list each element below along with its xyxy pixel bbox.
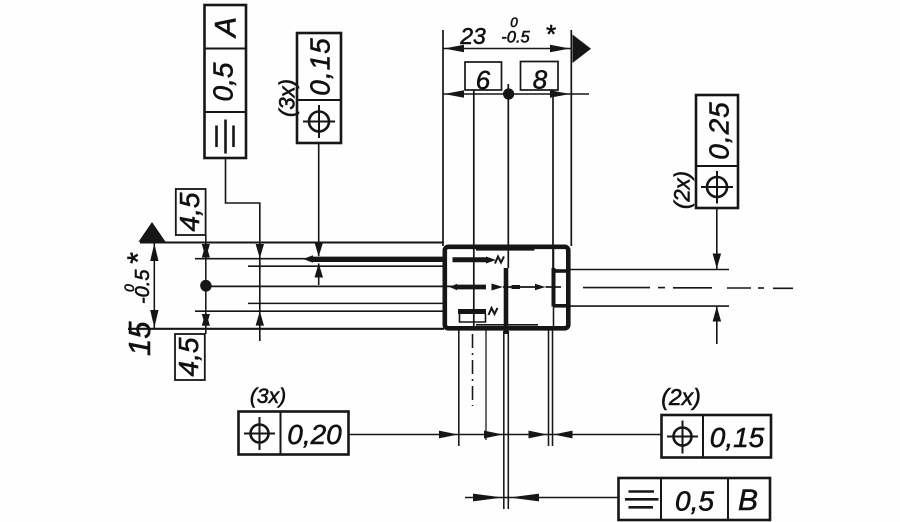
thick jog at right top — [554, 269, 568, 273]
thick middle vertical (slot edge) — [504, 268, 509, 334]
basic dim box 4,5 top — [176, 189, 206, 235]
double arrow bottom (4,5) — [202, 312, 210, 326]
arrow right tip at 547.5 — [529, 431, 548, 439]
label (3x) rotated — [275, 79, 300, 117]
svg-text:(2x): (2x) — [661, 384, 701, 410]
arrow down on A leader — [256, 244, 264, 258]
feature control frame position 0,15 (vertical) — [297, 33, 341, 143]
dimension 23 0/-0.5 * text — [459, 15, 556, 49]
center line thick dash in section — [455, 285, 486, 290]
dimension line 15 (vertical) — [153, 243, 155, 329]
arrow up on A leader — [256, 311, 264, 325]
part bottom line — [128, 328, 444, 330]
leader line to 0,5 B frame — [465, 497, 619, 499]
part line 5 — [195, 310, 444, 312]
thin inner right edge above/below notch — [553, 248, 555, 268]
arrow down to slot bar — [315, 243, 324, 257]
position symbol 0,25 — [701, 171, 733, 204]
arrow left (23) — [444, 45, 464, 53]
part line 4 — [248, 302, 444, 304]
big direction triangle — [573, 35, 592, 64]
feature control frame A (symmetry 0,5 A, vertical) — [205, 5, 247, 158]
symmetry symbol bottom — [625, 492, 659, 508]
svg-text:0,15: 0,15 — [710, 422, 765, 453]
shaft bottom line right — [568, 305, 729, 307]
arrow right tip at 502.8 — [473, 494, 503, 502]
arrow up to shaft bottom — [713, 306, 722, 321]
svg-text:(2x): (2x) — [670, 171, 695, 209]
arrow right (6/8) — [550, 90, 570, 98]
svg-text:-0.5: -0.5 — [132, 269, 154, 304]
svg-text:0,15: 0,15 — [305, 37, 336, 96]
thick jog at right bottom — [554, 304, 568, 308]
inner step line bottom — [476, 324, 538, 326]
feature control frame symmetry 0,5 B — [619, 478, 771, 520]
extension line from dot — [507, 84, 509, 268]
feature control frame position 0,15 bottom — [662, 415, 772, 458]
squiggle break mark lower — [489, 308, 498, 315]
text 4,5 bottom (rotated) — [173, 337, 204, 376]
inner slot bar with arrow — [453, 257, 489, 262]
value 0,5 (rotated) — [208, 62, 239, 101]
inner step line top — [476, 249, 535, 251]
text 4,5 top (rotated) — [174, 192, 205, 231]
extension line for 4,5 dims — [205, 235, 207, 334]
small arrow right on center line — [492, 284, 504, 291]
svg-text:4,5: 4,5 — [173, 337, 204, 376]
basic dim box 8 — [521, 62, 559, 91]
svg-text:0,5: 0,5 — [675, 486, 714, 517]
arrow right (23) — [550, 45, 570, 53]
label (2x) rotated — [670, 171, 695, 209]
arrow right tip at 458 — [439, 431, 458, 439]
svg-text:(3x): (3x) — [250, 385, 286, 408]
basic dim box 4,5 bottom — [175, 334, 205, 380]
svg-text:8: 8 — [533, 65, 548, 95]
slot center dash-dot below part — [472, 334, 474, 406]
svg-text:-0.5: -0.5 — [501, 29, 530, 47]
center line thin in section — [503, 286, 536, 288]
arrow right tip at 503 — [484, 431, 503, 439]
leader from 0,15 frame — [318, 143, 320, 256]
svg-text:0,25: 0,25 — [704, 101, 735, 160]
svg-text:0,5: 0,5 — [208, 62, 239, 101]
svg-text:*: * — [545, 19, 556, 49]
small tab below lower bar — [460, 314, 486, 322]
svg-text:A: A — [210, 17, 243, 39]
center line dashes right — [583, 287, 793, 290]
arrow left tip at 509.3 — [509, 494, 539, 502]
dimension/leader line mid bottom — [349, 434, 662, 436]
arrow left (6/8) — [444, 90, 464, 98]
leader stub below bar — [318, 264, 320, 286]
thick section outline — [445, 247, 569, 328]
dimension line 6/8 — [443, 93, 589, 95]
center line with dot — [200, 280, 211, 291]
extension line left x=443 — [442, 30, 444, 246]
feature control frame position 0,20 — [239, 412, 349, 455]
part line 2 — [195, 258, 444, 260]
leader from frame A — [226, 158, 260, 341]
heavy slot bar — [311, 257, 446, 262]
svg-text:*: * — [122, 252, 155, 265]
center line short thick dash — [512, 285, 521, 289]
double arrow top (4,5) — [202, 243, 210, 257]
dot on center line — [200, 280, 211, 291]
part top line — [140, 242, 444, 244]
junction dot on dim line — [503, 88, 514, 99]
position symbol — [303, 105, 335, 138]
leader from 0,25 frame lower — [716, 306, 718, 344]
datum letter A — [210, 17, 243, 39]
position symbol 0,20 — [244, 417, 275, 450]
part line 3 — [248, 265, 444, 267]
feature control frame position 0,25 (vertical) — [696, 95, 738, 208]
shaft top line right — [568, 269, 729, 271]
svg-text:6: 6 — [476, 65, 491, 95]
arrow left tip at 553.5 — [554, 431, 573, 439]
value 0,15 (rotated) — [305, 37, 336, 96]
symmetry symbol (rotated) — [217, 120, 234, 154]
thick inner right edge — [552, 268, 556, 307]
svg-text:B: B — [738, 484, 758, 517]
arrow down to shaft top — [713, 254, 722, 269]
leader from 0,25 frame upper — [716, 208, 718, 269]
lower slot bar — [458, 309, 486, 314]
arrow down (15) — [150, 310, 158, 328]
dimension line 23 — [443, 48, 572, 50]
squiggle break mark upper — [495, 257, 504, 264]
svg-text:4,5: 4,5 — [174, 192, 205, 231]
extension line right x=571.3 — [570, 30, 572, 246]
arrow up (15) — [150, 243, 158, 261]
extension line from box 6 — [473, 90, 475, 329]
svg-text:15: 15 — [122, 321, 157, 356]
extension line from box 8 — [552, 90, 554, 270]
svg-text:0,20: 0,20 — [287, 419, 342, 450]
small arrow right 2 on center line — [535, 284, 546, 291]
value 0,25 (rotated) — [704, 101, 735, 160]
datum triangle left (filled, up) — [139, 222, 166, 242]
arrow up below slot bar — [315, 263, 324, 277]
position symbol 0,15 bottom — [667, 421, 698, 454]
text 15 0/-0.5 * (rotated) — [121, 252, 157, 356]
extension verticals below part — [458, 329, 460, 446]
basic dim box 6 — [465, 62, 502, 90]
